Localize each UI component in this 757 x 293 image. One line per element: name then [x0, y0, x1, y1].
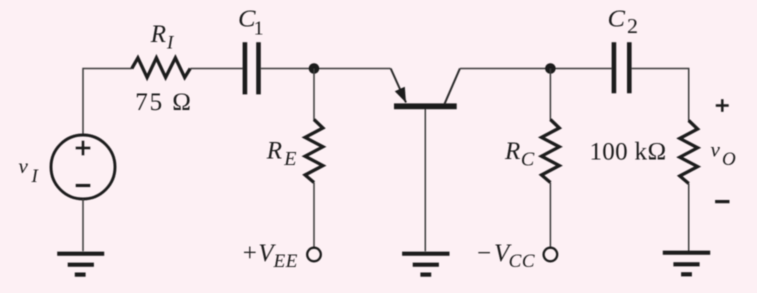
- capacitor C2: [614, 42, 629, 93]
- capacitor C1: [245, 42, 259, 94]
- value 75 ohm: [135, 89, 193, 116]
- svg-text:75 Ω: 75 Ω: [135, 89, 193, 116]
- output minus sign: [715, 200, 729, 203]
- svg-text:E: E: [283, 148, 296, 170]
- wire source to ground: [82, 199, 84, 251]
- terminal -VCC open circle: [544, 248, 558, 262]
- transistor Q1 emitter wire with arrow: [391, 69, 406, 103]
- label C2: [608, 7, 639, 39]
- terminal +VEE open circle: [307, 248, 321, 262]
- wire RI to C1: [190, 68, 242, 70]
- label RE: [266, 138, 297, 170]
- svg-text:2: 2: [627, 14, 638, 38]
- svg-text:+: +: [243, 240, 257, 267]
- svg-text:EE: EE: [273, 251, 298, 272]
- transistor Q1 collector wire: [444, 69, 460, 105]
- ground under output resistor: [663, 253, 710, 275]
- wire C2 to output corner and down to RL: [632, 69, 689, 122]
- node B junction dot: [545, 63, 556, 74]
- wire node A down to RE: [313, 69, 315, 121]
- svg-text:R: R: [504, 138, 520, 165]
- svg-text:C: C: [521, 149, 535, 171]
- label C1: [238, 7, 264, 40]
- value 100 kohm: [590, 138, 667, 165]
- label RC: [504, 138, 535, 171]
- voltage source vI: [51, 135, 115, 199]
- transistor Q1 base bar: [394, 103, 457, 109]
- transistor Q1 base lead to ground: [424, 109, 426, 251]
- output plus sign: [716, 99, 729, 112]
- wire C1 to emitter corner: [261, 68, 391, 70]
- svg-text:v: v: [711, 137, 721, 161]
- resistor RC: [542, 120, 560, 183]
- wire from source top to resistor RI: [83, 69, 132, 137]
- ground under transistor base: [402, 254, 449, 275]
- wire RC to VCC terminal: [549, 183, 551, 248]
- label vO: [711, 137, 737, 170]
- svg-text:−: −: [477, 240, 491, 267]
- label -VCC: [477, 240, 535, 272]
- resistor RL 100k: [680, 121, 698, 184]
- wire node B down to RC: [549, 69, 551, 121]
- svg-text:O: O: [722, 149, 736, 170]
- resistor RI: [132, 58, 190, 78]
- wire RL to ground: [688, 184, 690, 252]
- wire RE to VEE terminal: [313, 183, 315, 248]
- minus inside source: [76, 184, 91, 187]
- label vI: [19, 154, 40, 187]
- label RI: [150, 21, 175, 53]
- svg-text:C: C: [608, 7, 627, 33]
- wire collector to C2: [460, 68, 612, 70]
- svg-text:R: R: [266, 138, 282, 165]
- label +VEE: [243, 240, 298, 272]
- svg-text:CC: CC: [509, 251, 536, 272]
- ground under source: [57, 254, 104, 275]
- svg-text:100 kΩ: 100 kΩ: [590, 138, 667, 165]
- plus inside source: [76, 141, 91, 156]
- svg-text:1: 1: [254, 18, 264, 40]
- svg-text:v: v: [19, 154, 29, 178]
- resistor RE: [305, 120, 323, 183]
- node A junction dot: [309, 63, 320, 74]
- svg-text:R: R: [150, 21, 166, 48]
